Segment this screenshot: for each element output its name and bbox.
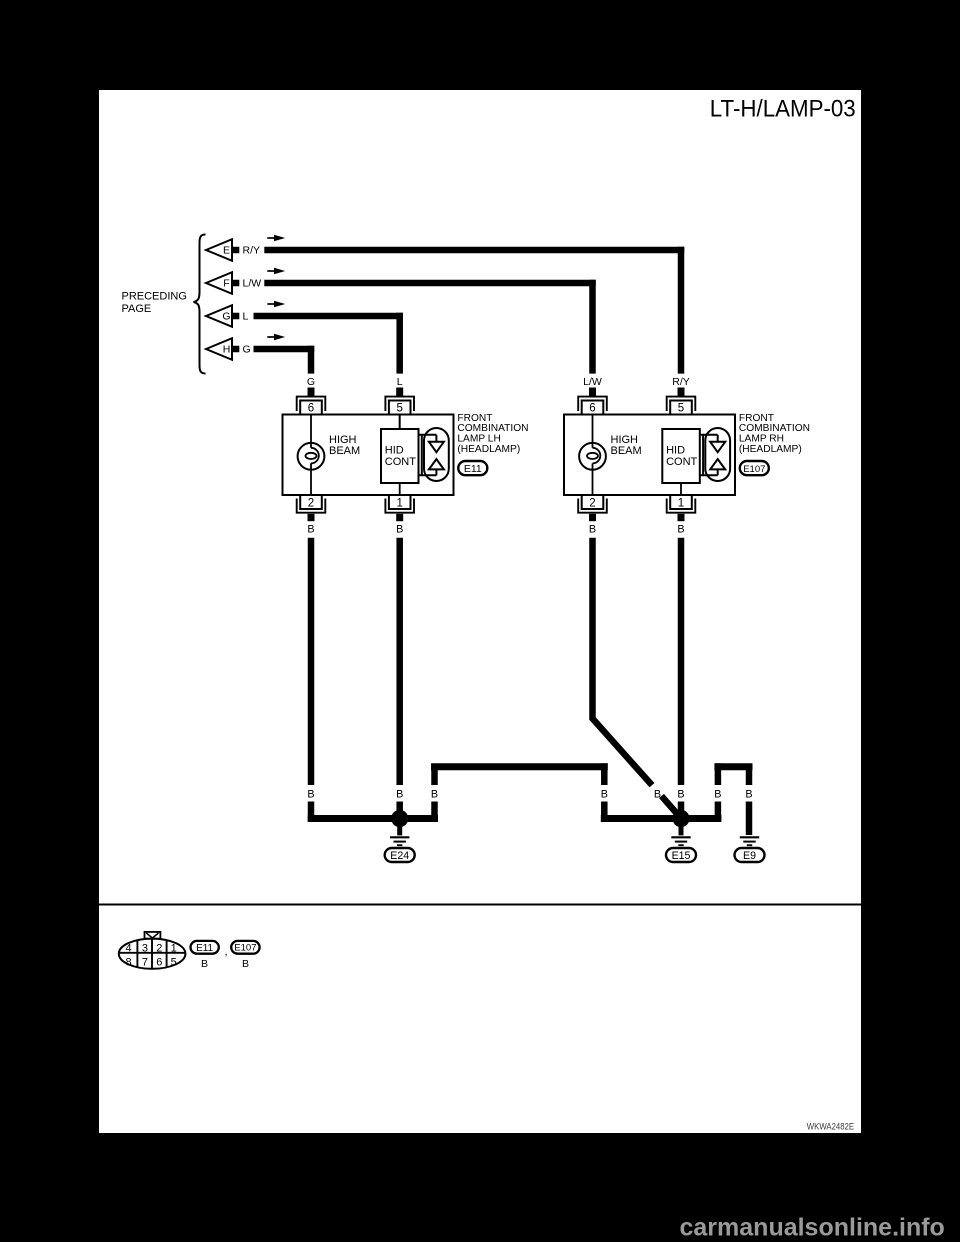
svg-text:2: 2 [589,497,595,509]
svg-text:HIGH: HIGH [329,434,357,446]
wire segment below B label at x=399.7 [396,802,403,823]
wire B from RH pin1 down [678,538,685,785]
ground bus right (E15) [601,815,722,822]
comma between refs [225,946,228,958]
junction dot E15 [672,810,689,827]
wire color label B below pin 2 [307,524,314,536]
female bracket of pin 6 [297,397,326,411]
watermark carmanualsonline.info [680,1214,945,1242]
xenon igniter capsule (RH) [700,428,730,481]
svg-text:E: E [223,245,230,257]
svg-text:E11: E11 [464,463,482,475]
svg-text:PAGE: PAGE [122,303,152,315]
connector stub below pin 2 [589,514,596,521]
wire segment below B label at x=604.3 [601,802,608,823]
svg-text:B: B [396,789,403,801]
wire segment below B label at x=434.5 [431,802,438,823]
wire vertical drop at x=311 (row H) [308,346,315,374]
svg-text:E11: E11 [196,943,213,954]
lead from bulb to pin 2 (RH) [592,463,594,495]
wire color label B at x=399.7 (ground bus) [396,789,403,801]
svg-text:B: B [589,524,596,536]
flow arrow (row E) [267,235,285,241]
off-page connector H [206,338,239,360]
svg-text:3: 3 [142,943,148,955]
female bracket of bottom pin 2 [297,499,326,513]
svg-text:G: G [222,311,230,323]
connector stub into pin 5 [678,388,685,397]
flow arrow (row H) [267,334,285,340]
lead from HID box to pin 1 (LH) [399,483,401,495]
wire color label B below pin 1 [396,524,403,536]
wire segment above B label at x=717.9 [715,763,722,785]
wire from top loop down to E9 ground [746,767,753,835]
svg-text:L/W: L/W [243,278,262,290]
svg-text:5: 5 [171,957,177,969]
connector stub below pin 1 [678,514,685,521]
high-beam bulb (RH) [579,443,606,470]
off-page connector E [206,239,239,261]
wire label R/Y above pin 5 at x=681 [672,376,690,388]
ground ref oval E9 [735,848,765,862]
svg-text:carmanualsonline.info: carmanualsonline.info [680,1214,945,1242]
svg-text:B: B [201,958,208,970]
svg-text:B: B [714,789,721,801]
svg-text:E107: E107 [234,943,256,954]
svg-text:E9: E9 [743,850,756,862]
caption FRONT COMBINATION LAMP LH [457,413,528,455]
svg-text:,: , [225,946,228,958]
wire horizontal row F [264,280,595,287]
wire B diagonal lower segment [662,796,682,818]
front combination lamp RH body [564,415,735,496]
svg-text:1: 1 [678,497,684,509]
title LT-H/LAMP-03 [710,94,856,121]
female bracket of bottom pin 1 [667,499,696,513]
wire color label B below pin 1 [677,524,684,536]
connector stub below pin 2 [308,514,315,521]
legend wire color B under E107 [242,958,249,970]
wire vertical drop at x=592.5 (row F) [589,280,596,374]
svg-text:E107: E107 [743,464,765,475]
ground ref oval E15 [666,848,696,862]
connector stub below pin 1 [396,514,403,521]
wire segment above B label at x=604.3 [601,763,608,785]
wire segment below B label at x=681 [678,802,685,823]
connector ref E11 (LH) [458,461,487,475]
svg-text:F: F [223,278,229,290]
lead from HID box to pin 1 (RH) [680,483,682,495]
svg-text:E15: E15 [672,850,691,862]
svg-text:2: 2 [308,497,314,509]
svg-text:CONT: CONT [385,456,416,468]
white diagram sheet [99,90,861,1133]
svg-text:1: 1 [396,497,402,509]
wire segment below B label at x=311 [308,802,315,823]
wire color label G (row H) [243,344,251,356]
flow arrow (row G) [267,301,285,307]
lead from pin 5 to HID unit (RH) [399,415,401,429]
lead from pin 5 to HID unit (LH) [399,415,401,429]
svg-text:7: 7 [142,957,148,969]
wire color label B at x=604.3 (ground bus) [601,789,608,801]
wire B from LH pin1 down [396,538,403,785]
wire color label B at x=717.9 (ground bus) [714,789,721,801]
female bracket of pin 5 [385,397,414,411]
svg-text:(HEADLAMP): (HEADLAMP) [457,444,520,455]
pin box 6 [582,401,604,415]
svg-text:1: 1 [171,943,177,955]
ground symbol E15 [671,824,690,845]
wire color label L/W (row F) [243,278,262,290]
female bracket of bottom pin 2 [578,499,607,513]
off-page connector F [206,272,239,294]
svg-text:L: L [397,376,403,388]
wire color label B at x=681 (ground bus) [677,789,684,801]
svg-text:H: H [223,344,231,356]
svg-text:2: 2 [156,943,162,955]
wire segment above B label at x=434.5 [431,767,438,785]
figure code WKWA2482E [807,1121,854,1132]
svg-text:HIGH: HIGH [611,434,639,446]
jumper horizontal to E9 [714,763,752,770]
svg-text:B: B [431,789,438,801]
HID CONT box (LH) [381,429,419,483]
front combination lamp LH body [283,415,454,496]
wire vertical drop at x=399.7 (row G) [396,313,403,374]
svg-text:G: G [307,376,315,388]
separator rule [99,904,861,906]
svg-text:E24: E24 [390,850,409,862]
female bracket of pin 6 [578,397,607,411]
pin box 6 [300,401,322,415]
svg-text:L/W: L/W [583,376,602,388]
svg-text:LT-H/LAMP-03: LT-H/LAMP-03 [710,94,856,121]
caption FRONT COMBINATION LAMP RH [739,413,810,455]
label HIGH BEAM (RH) [611,434,642,457]
svg-text:PRECEDING: PRECEDING [122,290,187,302]
svg-text:4: 4 [126,943,132,955]
svg-text:R/Y: R/Y [243,245,261,257]
legend wire color B under E11 [201,958,208,970]
pin box 1 (bottom) at x=681 [670,495,692,509]
wire color label B below pin 2 [589,524,596,536]
svg-text:B: B [396,524,403,536]
svg-text:BEAM: BEAM [329,445,360,457]
svg-text:5: 5 [396,402,402,414]
connector face view (8-pin) [119,932,186,969]
lead from pin 6 to bulb (RH) [592,415,594,443]
svg-text:HID: HID [666,445,685,457]
wire color label B at x=749 (ground bus) [745,789,752,801]
svg-text:B: B [242,958,249,970]
svg-text:WKWA2482E: WKWA2482E [807,1121,854,1132]
ground ref oval E24 [385,848,415,862]
wire vertical drop at x=681 (row E) [678,247,685,374]
wire segment below B label at x=717.9 [715,802,722,823]
wire B from RH pin2 down with diagonal [593,538,653,786]
HID CONT box (RH) [662,429,700,483]
female bracket of pin 5 [667,397,696,411]
svg-text:B: B [654,789,661,801]
connector stub into pin 5 [396,388,403,397]
lead from pin 6 to bulb (LH) [310,415,312,443]
connector ref E107 (RH) [740,461,769,475]
brace for preceding-page group [194,235,206,374]
female bracket of bottom pin 1 [385,499,414,513]
pin box 1 (bottom) at x=399.7 [389,495,411,509]
wire color label B at x=657.5 (ground bus) [654,789,661,801]
jumper horizontal between buses [431,763,608,770]
ground symbol E9 [740,837,759,845]
svg-text:BEAM: BEAM [611,445,642,457]
wire B from LH pin2 down [308,538,315,785]
connector ref E11 (legend) [191,941,219,954]
high-beam bulb (LH) [298,443,325,470]
svg-text:5: 5 [678,402,684,414]
wire color label B at x=434.5 (ground bus) [431,789,438,801]
svg-text:L: L [243,311,249,323]
svg-text:6: 6 [589,402,595,414]
wire color label R/Y (row E) [243,245,261,257]
svg-text:(HEADLAMP): (HEADLAMP) [739,444,802,455]
xenon igniter capsule (LH) [419,428,449,481]
label HIGH BEAM (LH) [329,434,360,457]
svg-text:G: G [243,344,251,356]
wire horizontal row E [264,247,684,254]
svg-text:8: 8 [126,957,132,969]
svg-text:B: B [307,789,314,801]
svg-text:B: B [307,524,314,536]
wire label L/W above pin 6 at x=592.5 [583,376,602,388]
junction dot E24 [391,810,408,827]
ground bus left (E24) [308,815,438,822]
svg-text:6: 6 [156,957,162,969]
svg-text:R/Y: R/Y [672,376,690,388]
wire label L above pin 5 at x=399.7 [397,376,403,388]
pin box 5 [389,401,411,415]
pin box 2 (bottom) at x=592.5 [582,495,604,509]
wire label G above pin 6 at x=311 [307,376,315,388]
svg-text:CONT: CONT [666,456,697,468]
svg-text:HID: HID [385,445,404,457]
connector ref E107 (legend) [231,941,259,954]
pin box 5 [670,401,692,415]
wire color label B at x=311 (ground bus) [307,789,314,801]
connector stub into pin 6 [308,388,315,397]
pin box 2 (bottom) at x=311 [300,495,322,509]
svg-text:B: B [677,524,684,536]
ground symbol E24 [390,824,409,845]
lead from bulb to pin 2 (LH) [310,463,312,495]
svg-text:6: 6 [308,402,314,414]
label PRECEDING PAGE [122,290,187,315]
wire horizontal row H [254,346,315,353]
svg-text:B: B [601,789,608,801]
flow arrow (row F) [267,268,285,274]
off-page connector G [206,305,239,327]
connector stub into pin 6 [589,388,596,397]
svg-text:B: B [745,789,752,801]
svg-text:B: B [677,789,684,801]
wire horizontal row G [254,313,403,320]
wire color label L (row G) [243,311,249,323]
